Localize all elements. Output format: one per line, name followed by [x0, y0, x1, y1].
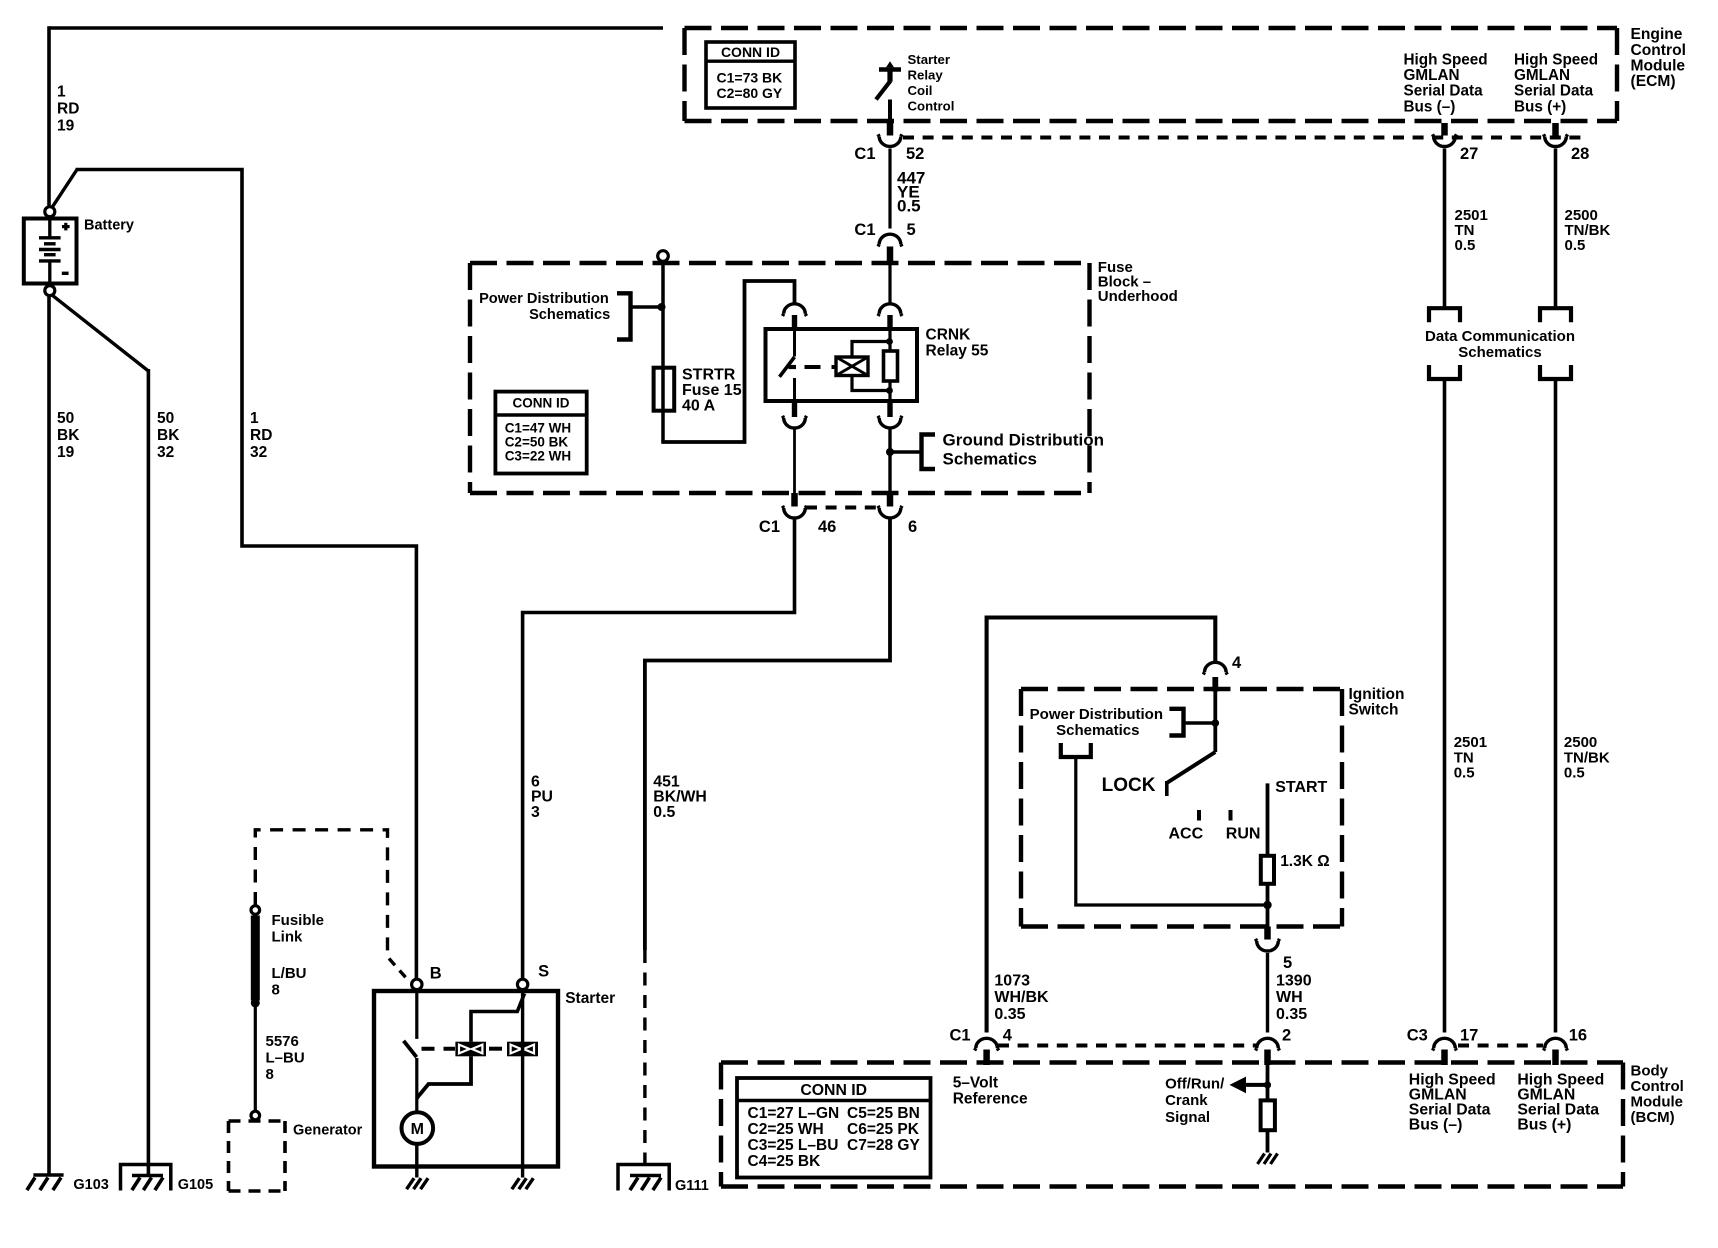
svg-text:GMLAN: GMLAN — [1404, 67, 1460, 84]
svg-text:19: 19 — [57, 118, 75, 135]
svg-text:Ignition: Ignition — [1349, 686, 1405, 703]
svg-text:0.35: 0.35 — [1276, 1006, 1307, 1023]
svg-text:17: 17 — [1460, 1026, 1478, 1044]
svg-text:0.5: 0.5 — [653, 804, 675, 821]
svg-text:LOCK: LOCK — [1102, 775, 1156, 796]
svg-text:Schematics: Schematics — [529, 307, 610, 323]
svg-text:ACC: ACC — [1169, 826, 1204, 843]
svg-text:RD: RD — [250, 427, 272, 444]
svg-text:(ECM): (ECM) — [1631, 73, 1676, 90]
svg-text:27: 27 — [1460, 145, 1478, 163]
svg-text:6: 6 — [908, 518, 917, 536]
svg-text:High Speed: High Speed — [1514, 52, 1598, 69]
svg-text:Data Communication: Data Communication — [1425, 328, 1575, 345]
svg-text:C1: C1 — [854, 145, 875, 163]
svg-text:L/BU: L/BU — [272, 965, 307, 982]
svg-text:1: 1 — [57, 84, 66, 101]
svg-text:C4=25 BK: C4=25 BK — [748, 1153, 822, 1170]
svg-text:5–Volt: 5–Volt — [953, 1075, 998, 1092]
svg-text:Link: Link — [272, 928, 303, 945]
svg-text:8: 8 — [272, 981, 280, 998]
svg-text:Fuse 15: Fuse 15 — [682, 382, 742, 399]
svg-text:C2=50 BK: C2=50 BK — [505, 435, 569, 450]
svg-text:CONN ID: CONN ID — [721, 44, 780, 60]
svg-text:5576: 5576 — [266, 1033, 299, 1050]
svg-text:32: 32 — [250, 444, 267, 461]
svg-text:G103: G103 — [73, 1177, 108, 1193]
svg-text:RD: RD — [57, 101, 79, 118]
svg-text:Coil: Coil — [908, 83, 933, 98]
svg-text:BK: BK — [57, 427, 80, 444]
svg-text:0.5: 0.5 — [1455, 237, 1476, 254]
svg-text:1390: 1390 — [1276, 972, 1312, 989]
svg-text:Bus (+): Bus (+) — [1514, 98, 1566, 115]
svg-text:Crank: Crank — [1165, 1092, 1208, 1109]
svg-text:WH: WH — [1276, 989, 1303, 1006]
svg-text:Switch: Switch — [1349, 702, 1399, 719]
svg-text:G111: G111 — [675, 1178, 709, 1194]
svg-text:C3=22 WH: C3=22 WH — [505, 449, 571, 464]
svg-text:Reference: Reference — [953, 1091, 1028, 1108]
svg-text:Fusible: Fusible — [272, 912, 325, 929]
svg-text:Ground Distribution: Ground Distribution — [943, 431, 1104, 450]
svg-text:M: M — [411, 1121, 424, 1138]
svg-text:40 A: 40 A — [682, 398, 716, 415]
svg-text:1073: 1073 — [994, 972, 1030, 989]
svg-text:Relay 55: Relay 55 — [926, 343, 989, 360]
svg-text:C6=25 PK: C6=25 PK — [847, 1121, 920, 1138]
svg-text:B: B — [430, 965, 442, 983]
svg-text:8: 8 — [266, 1066, 274, 1083]
svg-text:C1: C1 — [950, 1026, 971, 1044]
svg-text:0.5: 0.5 — [1454, 765, 1475, 782]
svg-text:G105: G105 — [178, 1177, 213, 1193]
svg-text:C1: C1 — [759, 518, 780, 536]
svg-text:Starter: Starter — [908, 52, 951, 67]
svg-text:START: START — [1275, 779, 1327, 796]
svg-text:0.5: 0.5 — [1565, 237, 1586, 254]
svg-text:Generator: Generator — [293, 1122, 363, 1138]
svg-text:WH/BK: WH/BK — [994, 989, 1049, 1006]
svg-text:Power Distribution: Power Distribution — [479, 291, 609, 307]
svg-text:C1=73 BK: C1=73 BK — [717, 69, 783, 85]
svg-text:Schematics: Schematics — [943, 449, 1038, 468]
svg-text:0.5: 0.5 — [1564, 765, 1585, 782]
svg-text:High Speed: High Speed — [1404, 52, 1488, 69]
svg-text:C7=28 GY: C7=28 GY — [847, 1137, 920, 1154]
svg-text:50: 50 — [57, 410, 74, 427]
svg-text:STRTR: STRTR — [682, 367, 736, 384]
svg-text:2: 2 — [1282, 1026, 1291, 1044]
svg-text:Schematics: Schematics — [1458, 344, 1541, 361]
svg-text:C3=25 L–BU: C3=25 L–BU — [748, 1137, 839, 1154]
svg-text:CRNK: CRNK — [926, 327, 972, 344]
svg-text:Control: Control — [1631, 1078, 1684, 1095]
svg-text:C2=25 WH: C2=25 WH — [748, 1121, 824, 1138]
svg-text:L–BU: L–BU — [266, 1049, 305, 1066]
svg-text:Schematics: Schematics — [1056, 722, 1139, 739]
svg-text:46: 46 — [818, 518, 836, 536]
svg-text:C2=80 GY: C2=80 GY — [717, 85, 783, 101]
svg-text:S: S — [538, 962, 549, 980]
svg-text:Starter: Starter — [565, 990, 615, 1007]
svg-text:Bus (–): Bus (–) — [1404, 98, 1456, 115]
svg-text:1: 1 — [250, 410, 259, 427]
svg-text:Relay: Relay — [908, 68, 944, 83]
svg-text:Body: Body — [1631, 1062, 1669, 1079]
svg-text:5: 5 — [907, 221, 916, 239]
svg-text:19: 19 — [57, 444, 75, 461]
svg-text:Battery: Battery — [84, 217, 134, 233]
svg-text:C1: C1 — [854, 221, 875, 239]
svg-text:Off/Run/: Off/Run/ — [1165, 1076, 1225, 1093]
svg-text:0.35: 0.35 — [994, 1006, 1025, 1023]
svg-text:52: 52 — [906, 145, 924, 163]
svg-text:Bus (–): Bus (–) — [1409, 1116, 1463, 1133]
svg-text:Module: Module — [1631, 58, 1686, 75]
svg-text:Module: Module — [1631, 1093, 1684, 1110]
svg-text:C1=47 WH: C1=47 WH — [505, 421, 571, 436]
svg-text:16: 16 — [1569, 1026, 1587, 1044]
svg-text:1.3K Ω: 1.3K Ω — [1280, 853, 1329, 870]
svg-text:BK: BK — [157, 427, 180, 444]
svg-text:RUN: RUN — [1226, 826, 1261, 843]
svg-text:C1=27 L–GN: C1=27 L–GN — [748, 1105, 840, 1122]
svg-text:Underhood: Underhood — [1098, 288, 1178, 305]
svg-text:4: 4 — [1003, 1026, 1013, 1044]
svg-text:Serial Data: Serial Data — [1404, 83, 1484, 100]
svg-text:28: 28 — [1571, 145, 1589, 163]
svg-text:4: 4 — [1232, 654, 1242, 672]
svg-text:Engine: Engine — [1631, 26, 1683, 43]
svg-text:Power Distribution: Power Distribution — [1030, 706, 1163, 723]
svg-text:32: 32 — [157, 444, 174, 461]
svg-text:Serial Data: Serial Data — [1514, 83, 1594, 100]
svg-text:3: 3 — [531, 804, 540, 821]
svg-text:5: 5 — [1283, 954, 1292, 972]
svg-text:50: 50 — [157, 410, 174, 427]
svg-text:Control: Control — [1631, 42, 1686, 59]
svg-text:Signal: Signal — [1165, 1109, 1210, 1126]
svg-text:Bus (+): Bus (+) — [1517, 1116, 1571, 1133]
svg-text:C3: C3 — [1407, 1026, 1428, 1044]
svg-text:(BCM): (BCM) — [1631, 1109, 1675, 1126]
svg-text:0.5: 0.5 — [897, 196, 921, 215]
svg-text:CONN ID: CONN ID — [800, 1082, 867, 1099]
svg-text:C5=25 BN: C5=25 BN — [847, 1105, 920, 1122]
svg-text:GMLAN: GMLAN — [1514, 67, 1570, 84]
svg-text:CONN ID: CONN ID — [513, 396, 570, 411]
svg-text:Control: Control — [908, 99, 955, 114]
